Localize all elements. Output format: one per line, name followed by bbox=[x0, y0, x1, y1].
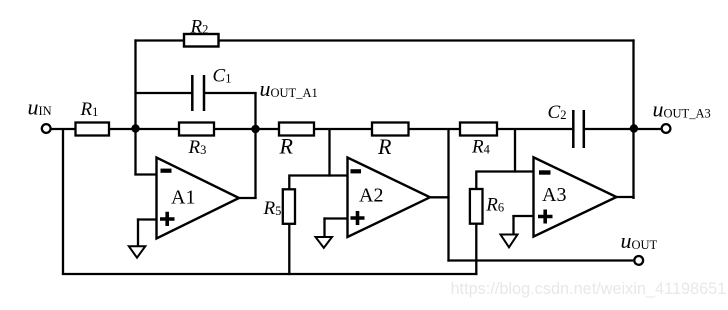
capacitor C1 bbox=[192, 66, 231, 111]
wire: right feedback vertical at x633.5 bbox=[632, 39, 634, 199]
node uOUT_A1 label bbox=[260, 76, 318, 101]
wire: bottom rail bbox=[62, 273, 478, 275]
wire: R6 top stub bbox=[475, 171, 477, 191]
wire: A3 non-inverting stub bbox=[512, 215, 534, 236]
svg-text:A2: A2 bbox=[359, 185, 383, 207]
svg-text:R: R bbox=[377, 134, 392, 159]
ground for A1 bbox=[129, 246, 146, 258]
op-amp A2 bbox=[348, 158, 431, 238]
wire: main horizontal rail left of C2 bbox=[51, 128, 572, 130]
ground for A3 bbox=[501, 235, 518, 248]
resistor R (first) bbox=[279, 123, 315, 159]
terminal uOUT bbox=[621, 228, 658, 265]
capacitor C2 bbox=[548, 102, 584, 148]
wire: A3 inverting input rail from R6 bbox=[476, 128, 535, 173]
wire: R6 bottom vertical bbox=[475, 222, 477, 275]
wire: A2 inverting input rail from R5 bbox=[289, 128, 349, 177]
resistor R2 bbox=[184, 16, 219, 46]
node uOUT_A1 junction bbox=[251, 125, 259, 133]
resistor R4 bbox=[460, 123, 497, 158]
resistor R6 bbox=[470, 189, 504, 224]
node junction at input of A1 bbox=[131, 124, 139, 132]
ground for A2 bbox=[316, 237, 333, 248]
op-amp A3 bbox=[534, 157, 617, 236]
wire: A1 inverting input stub bbox=[134, 173, 158, 175]
wire: top feedback rail bbox=[134, 39, 634, 41]
wire: C1 left lead bbox=[134, 92, 192, 94]
wire: input branch vertical at x63 bbox=[62, 128, 64, 275]
resistor R1 bbox=[76, 99, 110, 135]
op-amp A1 bbox=[157, 158, 240, 239]
terminal uIN bbox=[28, 95, 52, 133]
watermark bbox=[451, 280, 727, 298]
wire: A2 output lead bbox=[429, 196, 450, 198]
svg-text:https://blog.csdn.net/weixin_4: https://blog.csdn.net/weixin_41198651 bbox=[451, 280, 727, 298]
wire: uOUT rail bbox=[447, 259, 633, 261]
node uOUT_A3 junction bbox=[630, 124, 638, 132]
wire: node uOUT_A1 vertical bbox=[254, 92, 256, 199]
svg-text:A3: A3 bbox=[542, 184, 566, 206]
wire: A1 non-inverting stub bbox=[137, 218, 158, 247]
wire: A3 output lead bbox=[616, 196, 635, 198]
wire: R5 top stub bbox=[288, 175, 290, 191]
wire: C1 right lead bbox=[204, 92, 257, 94]
resistor R3 bbox=[179, 123, 214, 159]
wire: feedback vertical at node x135.5 bbox=[134, 39, 136, 175]
wire: main horizontal rail right of C2 bbox=[585, 128, 661, 130]
wire: R5 bottom lead bbox=[288, 224, 290, 276]
svg-text:A1: A1 bbox=[171, 187, 195, 209]
wire: A2 output vertical to uOUT rail bbox=[447, 128, 449, 262]
resistor R (second) bbox=[372, 123, 409, 160]
wire: A2 non-inverting stub bbox=[323, 217, 348, 238]
wire: A1 output lead bbox=[238, 197, 257, 199]
terminal uOUT_A3 bbox=[653, 97, 711, 133]
svg-text:R: R bbox=[279, 134, 294, 159]
resistor R5 bbox=[263, 189, 296, 224]
